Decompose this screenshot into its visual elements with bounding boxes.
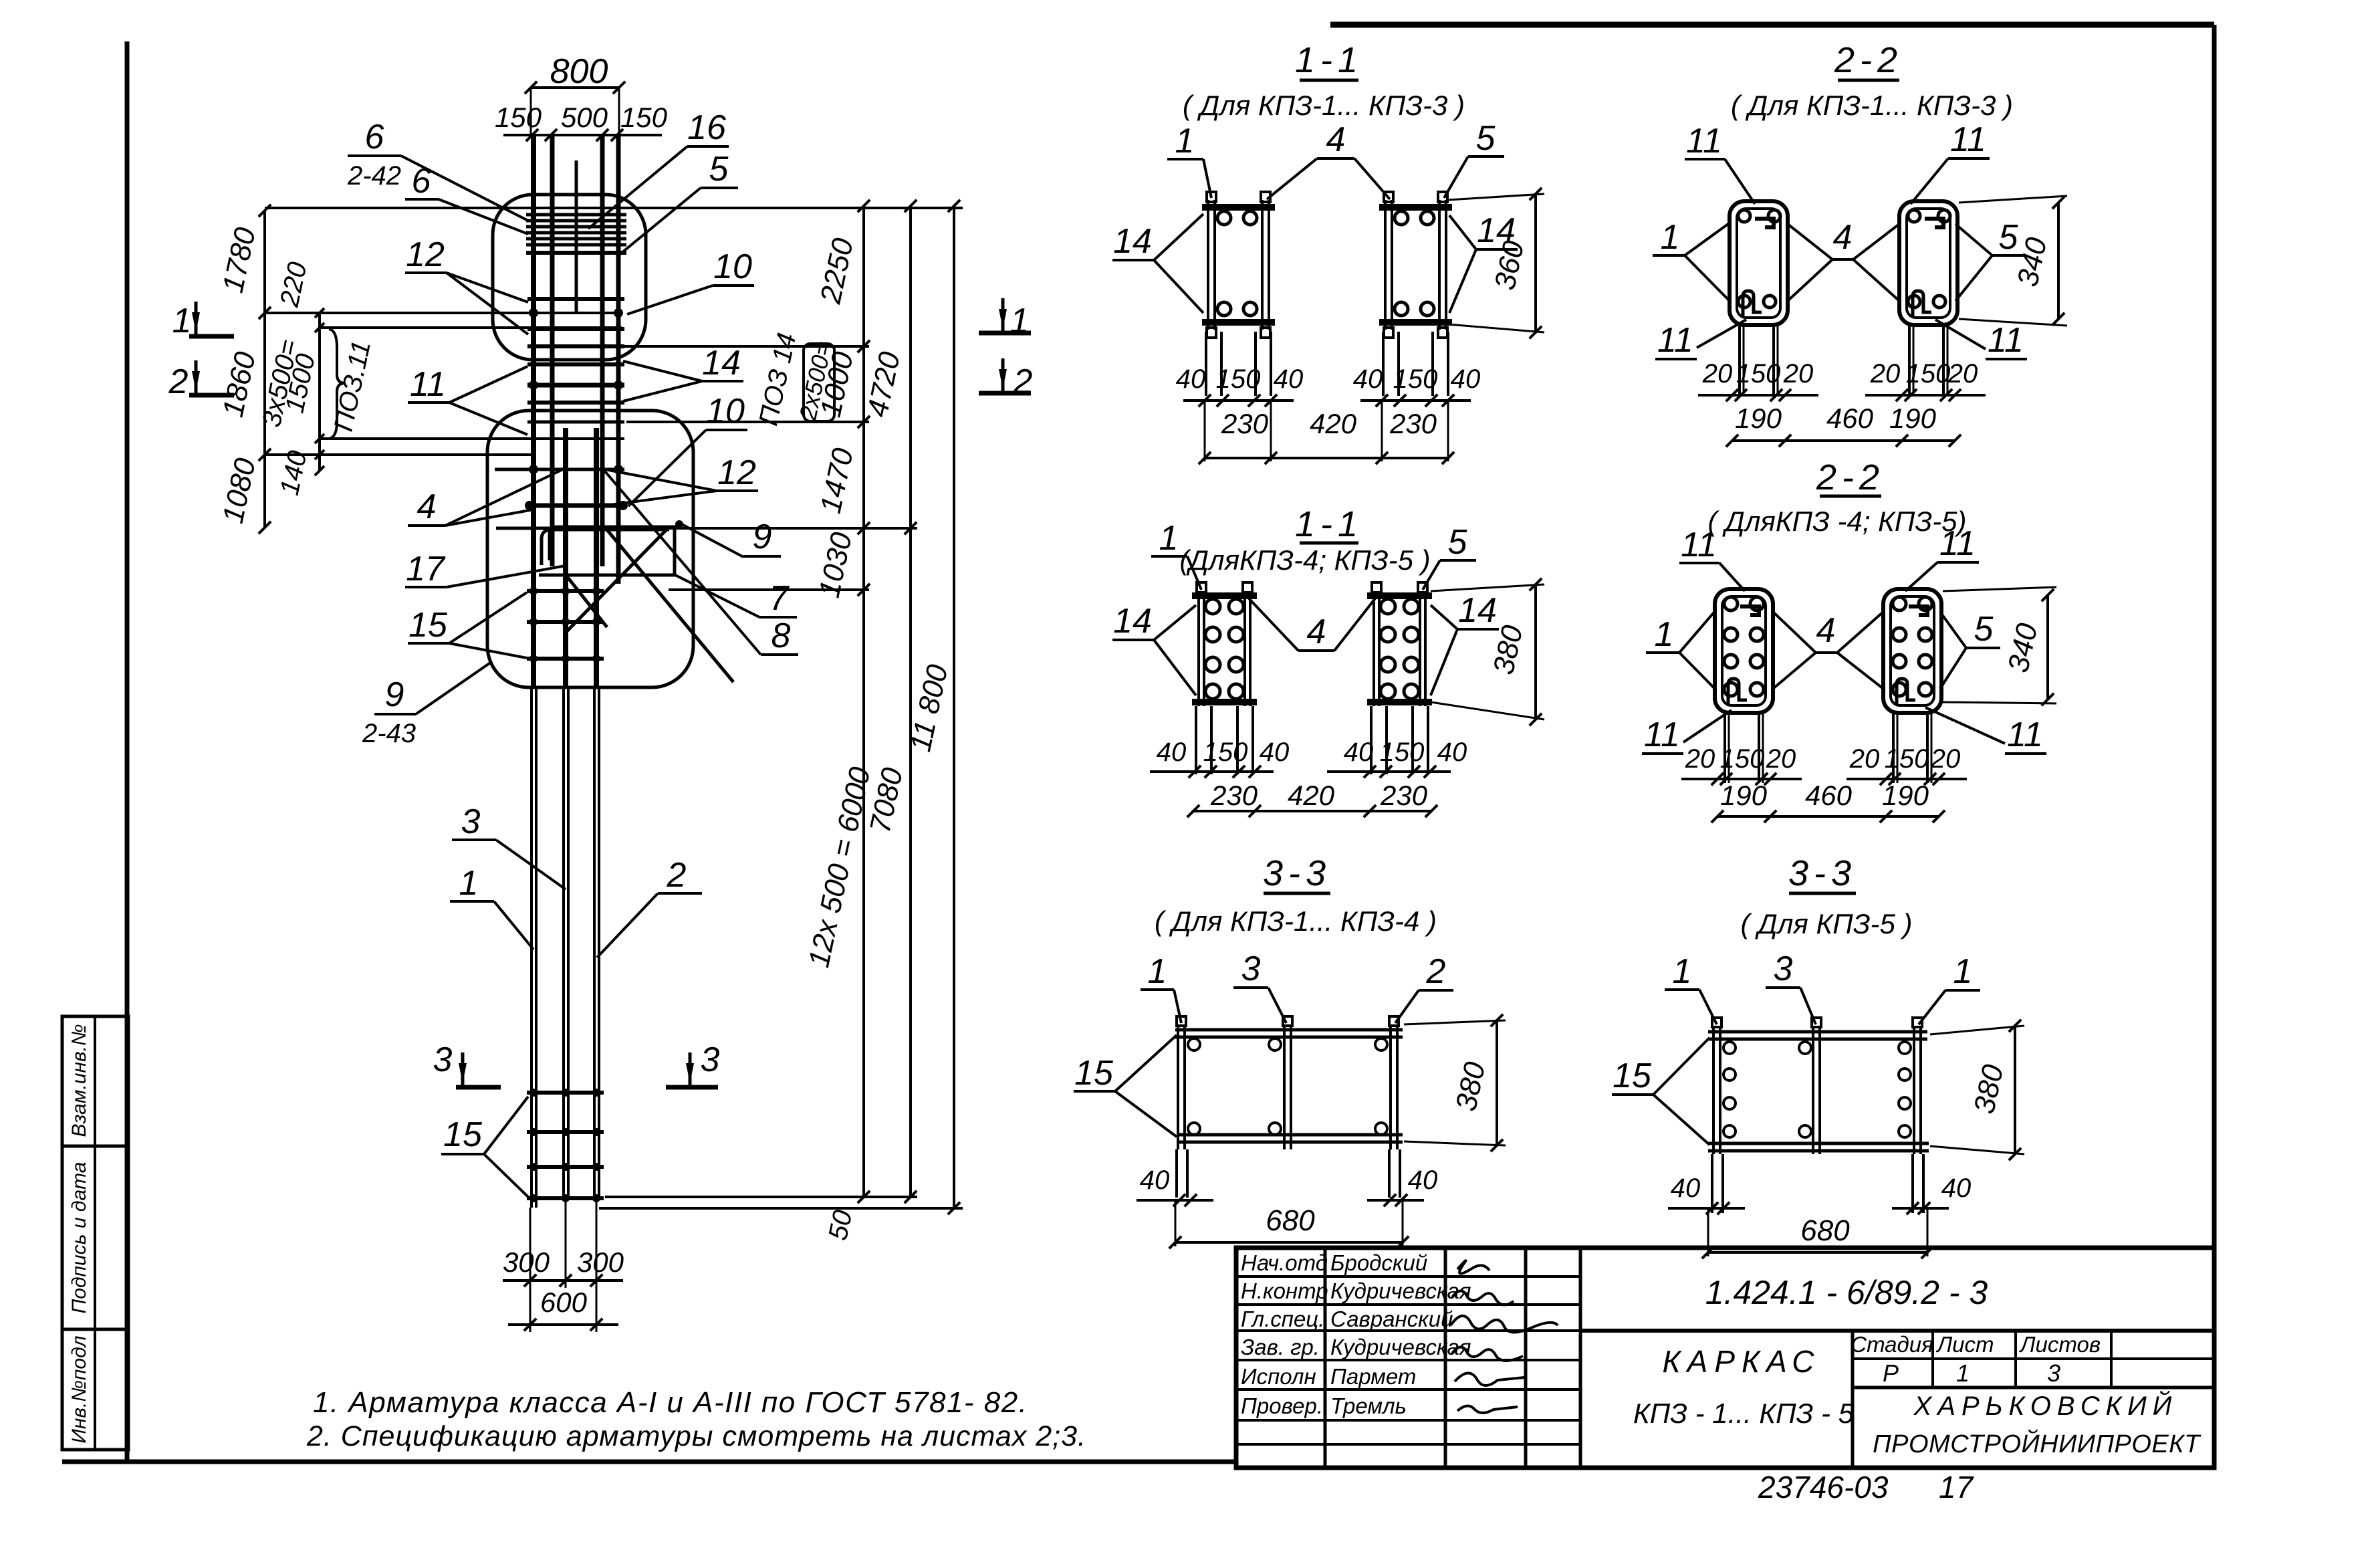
стадия columns bbox=[1853, 1357, 2214, 1360]
svg-text:11: 11 bbox=[1950, 120, 1986, 159]
main longitudinal bar 2 (right) bbox=[616, 136, 621, 584]
svg-text:1: 1 bbox=[1655, 615, 1674, 654]
right chain 2 vertical bbox=[909, 206, 912, 1197]
legs below bbox=[1205, 332, 1207, 396]
svg-text:3: 3 bbox=[1241, 950, 1261, 988]
svg-text:150: 150 bbox=[1393, 364, 1438, 394]
svg-text:40: 40 bbox=[1408, 1165, 1438, 1195]
svg-text:1. Арматура класса А-I и А: 1. Арматура класса А-I и А-III по ГОСТ 5… bbox=[313, 1386, 1028, 1419]
svg-text:5: 5 bbox=[709, 150, 729, 189]
level line 790 bbox=[496, 527, 917, 530]
dim 230 420 230 row2 bbox=[1193, 810, 1431, 812]
svg-text:2: 2 bbox=[1426, 952, 1446, 991]
svg-text:40: 40 bbox=[1140, 1165, 1170, 1195]
svg-text:4: 4 bbox=[1326, 120, 1346, 159]
svg-text:11: 11 bbox=[1686, 122, 1722, 160]
circles 2x4 bbox=[1205, 599, 1220, 614]
dim 230 420 230 row1 bbox=[1205, 457, 1448, 459]
svg-text:Исполн: Исполн bbox=[1241, 1364, 1316, 1389]
3-3 left: bottom chord bbox=[1178, 1133, 1403, 1137]
svg-text:20: 20 bbox=[1870, 359, 1901, 388]
svg-text:2250: 2250 bbox=[814, 235, 860, 307]
3-3 right legs bbox=[1711, 1154, 1713, 1213]
3-3 left circles bbox=[1188, 1038, 1200, 1050]
stirrup outline double bbox=[1883, 589, 1941, 713]
stirrup circles corners bbox=[1908, 210, 1920, 222]
anchor diagonal small bbox=[567, 576, 607, 627]
svg-text:20: 20 bbox=[1930, 744, 1961, 774]
lower-zone bar 2 (right) bbox=[594, 428, 599, 689]
svg-text:150: 150 bbox=[1885, 744, 1929, 774]
svg-text:Кудричевская: Кудричевская bbox=[1330, 1278, 1471, 1303]
tie row 702 with dots bbox=[495, 468, 624, 471]
svg-text:300: 300 bbox=[503, 1246, 550, 1278]
main longitudinal bar 1 (left) bbox=[531, 136, 536, 689]
svg-text:2-2: 2-2 bbox=[1834, 40, 1903, 80]
svg-text:11: 11 bbox=[1988, 321, 2024, 360]
svg-text:11: 11 bbox=[410, 365, 446, 404]
svg-text:1860: 1860 bbox=[217, 349, 262, 420]
lower consolidation blob outline bbox=[487, 411, 693, 687]
svg-text:Бродский: Бродский bbox=[1330, 1250, 1427, 1275]
svg-text:1-1: 1-1 bbox=[1295, 40, 1363, 80]
svg-text:800: 800 bbox=[550, 52, 608, 91]
svg-text:230: 230 bbox=[1389, 408, 1437, 439]
tie row 656 bracket end bbox=[321, 437, 624, 440]
svg-text:6: 6 bbox=[365, 118, 384, 156]
svg-text:1: 1 bbox=[1148, 952, 1167, 991]
bent bar поз.9 rectangle bbox=[539, 527, 675, 575]
top dimension 800: dim line bbox=[531, 86, 619, 89]
extension verticals row1 dims bbox=[1204, 401, 1206, 461]
bottom dim 600 bbox=[508, 1323, 618, 1326]
hook bottom bbox=[1913, 291, 1931, 316]
svg-text:Зав. гр.: Зав. гр. bbox=[1241, 1335, 1320, 1359]
3-3 right circles bbox=[1723, 1042, 1736, 1054]
svg-text:230: 230 bbox=[1380, 780, 1428, 811]
svg-text:50: 50 bbox=[823, 1208, 858, 1243]
dims 40 150 40 row2 left bbox=[1150, 770, 1274, 773]
svg-text:(ДляКПЗ-4; КПЗ-5 ): (ДляКПЗ-4; КПЗ-5 ) bbox=[1179, 544, 1430, 576]
svg-text:Провер.: Провер. bbox=[1241, 1394, 1323, 1418]
svg-text:1: 1 bbox=[1956, 1359, 1970, 1387]
main longitudinal bar (3rd) bbox=[600, 136, 605, 566]
bold tie поз.12 upper bbox=[527, 383, 624, 388]
svg-text:2-43: 2-43 bbox=[362, 719, 416, 748]
svg-text:3: 3 bbox=[461, 802, 481, 841]
svg-text:1.424.1 - 6/89.2 - 3: 1.424.1 - 6/89.2 - 3 bbox=[1705, 1274, 1988, 1311]
svg-text:3-3: 3-3 bbox=[1263, 853, 1331, 893]
svg-text:1470: 1470 bbox=[814, 445, 860, 516]
bar circles bbox=[1217, 211, 1231, 225]
svg-text:9: 9 bbox=[385, 675, 404, 714]
bottom dim 300 300 bbox=[503, 1279, 623, 1282]
3-3 right top chord bbox=[1708, 1030, 1927, 1034]
rail end stubs bbox=[1384, 192, 1393, 202]
svg-text:150: 150 bbox=[1203, 738, 1248, 767]
svg-text:150: 150 bbox=[1720, 744, 1765, 774]
svg-text:16: 16 bbox=[687, 108, 726, 147]
svg-text:1: 1 bbox=[1175, 122, 1195, 160]
right chain 3 vertical bbox=[953, 206, 955, 1208]
svg-text:5: 5 bbox=[1974, 610, 1994, 649]
main longitudinal bar (2nd) bbox=[550, 136, 555, 566]
dim 380 row2 bbox=[1534, 584, 1537, 719]
svg-text:20: 20 bbox=[1783, 359, 1814, 388]
svg-text:1: 1 bbox=[1673, 952, 1692, 991]
svg-text:300: 300 bbox=[577, 1246, 624, 1278]
svg-text:190: 190 bbox=[1720, 780, 1768, 811]
svg-text:40: 40 bbox=[1671, 1174, 1701, 1203]
svg-text:3-3: 3-3 bbox=[1788, 853, 1857, 893]
svg-text:460: 460 bbox=[1826, 403, 1874, 434]
svg-text:14: 14 bbox=[1113, 602, 1152, 641]
3-3 right dim 380 bbox=[2014, 1026, 2016, 1154]
lower blob ties поз.15 with dots bbox=[527, 589, 604, 593]
svg-text:40: 40 bbox=[1176, 364, 1206, 394]
bottom tie group with dots bbox=[527, 1091, 604, 1095]
svg-text:3: 3 bbox=[433, 1040, 453, 1079]
hook bottom bbox=[1897, 679, 1915, 704]
svg-text:420: 420 bbox=[1288, 780, 1335, 811]
svg-text:190: 190 bbox=[1882, 780, 1929, 811]
svg-text:380: 380 bbox=[1968, 1061, 2010, 1117]
svg-text:20: 20 bbox=[1849, 744, 1880, 774]
svg-text:40: 40 bbox=[1353, 364, 1383, 394]
3-3 right bottom chord bbox=[1708, 1142, 1929, 1145]
3-3 left dims 40 bbox=[1137, 1199, 1213, 1202]
top plate bbox=[1379, 204, 1452, 211]
legs below bbox=[1382, 332, 1385, 396]
svg-text:15: 15 bbox=[1074, 1054, 1114, 1093]
legs bbox=[1908, 325, 1911, 395]
svg-text:14: 14 bbox=[1113, 222, 1152, 261]
extension verticals of 800 box bbox=[530, 88, 532, 136]
svg-text:150: 150 bbox=[1216, 364, 1261, 394]
plates bbox=[1192, 592, 1257, 599]
dims 20 150 20 row2 right bbox=[1847, 778, 1967, 780]
hook top bbox=[1755, 219, 1774, 227]
stirrup circles 2x4 bbox=[1724, 597, 1738, 610]
3-3 right dims 40 bbox=[1668, 1207, 1745, 1210]
svg-text:12: 12 bbox=[717, 453, 756, 492]
brace поз.11 bbox=[329, 329, 345, 439]
svg-text:4: 4 bbox=[1307, 612, 1326, 651]
rails bbox=[1373, 591, 1375, 706]
stirrup circles corners bbox=[1738, 210, 1750, 222]
svg-text:11: 11 bbox=[1644, 715, 1680, 754]
circles 2x4 bbox=[1381, 599, 1395, 614]
svg-text:1: 1 bbox=[1661, 218, 1680, 257]
3-3 left rails bbox=[1177, 1024, 1179, 1149]
svg-text:220: 220 bbox=[275, 259, 313, 310]
svg-text:7: 7 bbox=[769, 579, 790, 618]
top plate bbox=[1202, 204, 1275, 211]
section rails bbox=[1384, 200, 1387, 330]
svg-text:10: 10 bbox=[713, 247, 752, 286]
stubs bbox=[1372, 582, 1381, 592]
dim 190 460 190 row2 bbox=[1717, 815, 1939, 818]
boxed 2x500= bbox=[804, 344, 834, 421]
svg-text:380: 380 bbox=[1449, 1058, 1492, 1114]
hook top bbox=[1740, 606, 1759, 615]
svg-text:3: 3 bbox=[701, 1040, 720, 1079]
plates bbox=[1367, 592, 1432, 599]
svg-text:ХАРЬКОВСКИЙ: ХАРЬКОВСКИЙ bbox=[1913, 1390, 2178, 1421]
legs bbox=[1892, 713, 1895, 783]
dims 20 150 20 row2 left bbox=[1681, 778, 1802, 780]
каркас cell divider bbox=[1851, 1331, 1855, 1468]
svg-text:( Для КПЗ-1... КПЗ-3 ): ( Для КПЗ-1... КПЗ-3 ) bbox=[1731, 90, 2013, 121]
bottom plate bbox=[1202, 319, 1275, 326]
svg-text:( Для КПЗ-1... КПЗ-3 ): ( Для КПЗ-1... КПЗ-3 ) bbox=[1183, 90, 1465, 121]
middle short bar 16 bbox=[575, 160, 578, 312]
sheet frame top border bbox=[1330, 22, 2214, 28]
svg-text:( Для КПЗ-5 ): ( Для КПЗ-5 ) bbox=[1741, 908, 1913, 939]
mesh поз.6 closely spaced lines bbox=[526, 213, 626, 217]
dims 20 150 20 row1 right bbox=[1865, 394, 1986, 397]
dim 340 row1 bbox=[2057, 203, 2060, 319]
svg-text:5: 5 bbox=[1476, 119, 1496, 158]
tie row 631 bbox=[527, 421, 624, 424]
svg-text:8: 8 bbox=[771, 617, 791, 655]
left dim chain vertical bbox=[263, 211, 266, 528]
secondary chain 220/3x500/140 bbox=[318, 313, 321, 471]
svg-text:2. Спецификацию арматуры смо: 2. Спецификацию арматуры смотреть на лис… bbox=[306, 1420, 1086, 1452]
dims 40 150 40 row1 left bbox=[1183, 399, 1294, 402]
leader arrow to 9 top bbox=[678, 522, 743, 557]
hook bottom bbox=[1728, 679, 1747, 704]
svg-text:680: 680 bbox=[1800, 1214, 1850, 1247]
legs bbox=[1195, 706, 1197, 774]
svg-text:230: 230 bbox=[1210, 780, 1258, 811]
section rails bbox=[1207, 200, 1209, 330]
svg-text:230: 230 bbox=[1221, 408, 1269, 439]
svg-text:20: 20 bbox=[1766, 744, 1796, 774]
rails bbox=[1197, 591, 1200, 706]
svg-text:11: 11 bbox=[2007, 715, 2043, 754]
svg-text:Тремль: Тремль bbox=[1330, 1394, 1407, 1418]
stirrup outline double bbox=[1730, 201, 1788, 325]
svg-text:14: 14 bbox=[702, 344, 741, 382]
svg-text:Н.контр: Н.контр bbox=[1241, 1278, 1328, 1303]
svg-text:40: 40 bbox=[1274, 364, 1304, 394]
3-3 right rails bbox=[1712, 1026, 1715, 1154]
svg-text:Савранский: Савранский bbox=[1330, 1307, 1453, 1331]
dims 20 150 20 row1 left bbox=[1698, 394, 1818, 397]
legs bbox=[1723, 713, 1726, 783]
svg-text:3: 3 bbox=[2047, 1359, 2060, 1387]
svg-text:20: 20 bbox=[1685, 744, 1715, 774]
svg-text:4: 4 bbox=[417, 487, 437, 526]
bar circles bbox=[1395, 211, 1408, 225]
legs bbox=[1738, 325, 1741, 395]
svg-text:Пармет: Пармет bbox=[1330, 1364, 1416, 1389]
svg-text:Листов: Листов bbox=[2019, 1332, 2101, 1357]
svg-text:150: 150 bbox=[495, 102, 542, 133]
sidebar stamp boxes bbox=[62, 1016, 128, 1450]
long bold tie 756 поз.10 bbox=[525, 504, 627, 508]
level line 882 bbox=[669, 588, 869, 591]
svg-text:4: 4 bbox=[1816, 611, 1836, 650]
level line 1807 bbox=[599, 1207, 963, 1210]
svg-text:1780: 1780 bbox=[217, 225, 262, 296]
lower-zone bar 3 (middle) bbox=[563, 428, 568, 689]
svg-text:Подпись и дата: Подпись и дата bbox=[68, 1162, 90, 1314]
right chain 1 vertical bbox=[862, 206, 865, 1197]
bottom plate bbox=[1379, 319, 1452, 326]
anchor diagonal 8 bbox=[567, 528, 668, 631]
svg-text:Стадия: Стадия bbox=[1851, 1332, 1933, 1357]
upper ties with end dots bbox=[527, 297, 624, 301]
3-3 left dim 680 bbox=[1175, 1241, 1403, 1244]
stirrup circles 2x4 bbox=[1893, 597, 1906, 610]
svg-text:10: 10 bbox=[706, 392, 745, 431]
dims 40 150 40 row1 right bbox=[1360, 399, 1471, 402]
svg-text:14: 14 bbox=[1458, 591, 1497, 630]
svg-text:15: 15 bbox=[1613, 1056, 1652, 1095]
anchor diagonal 7 bbox=[606, 528, 733, 682]
title block row lines left part bbox=[1236, 1275, 1580, 1278]
svg-text:680: 680 bbox=[1266, 1204, 1315, 1237]
svg-text:2: 2 bbox=[667, 856, 687, 895]
svg-text:40: 40 bbox=[1344, 738, 1374, 767]
3-3 right dim 680 bbox=[1708, 1251, 1927, 1254]
svg-text:1: 1 bbox=[459, 864, 479, 903]
svg-text:11: 11 bbox=[1939, 524, 1976, 563]
svg-text:4: 4 bbox=[1833, 218, 1853, 257]
upper consolidation blob outline bbox=[493, 195, 646, 360]
svg-text:4720: 4720 bbox=[861, 349, 907, 420]
svg-text:40: 40 bbox=[1437, 738, 1467, 767]
rail end stubs bbox=[1207, 192, 1216, 202]
svg-text:КПЗ - 1... КПЗ - 5: КПЗ - 1... КПЗ - 5 bbox=[1633, 1398, 1855, 1429]
3-3 left dim 380 bbox=[1496, 1020, 1498, 1145]
svg-text:2-42: 2-42 bbox=[347, 161, 401, 191]
svg-text:500: 500 bbox=[561, 102, 608, 133]
svg-text:( ДляКПЗ -4; КПЗ-5): ( ДляКПЗ -4; КПЗ-5) bbox=[1708, 506, 1967, 537]
svg-text:11: 11 bbox=[1657, 321, 1693, 360]
svg-text:190: 190 bbox=[1889, 403, 1937, 434]
sheet frame right border bbox=[2212, 25, 2217, 1250]
svg-text:Инв.№подл: Инв.№подл bbox=[68, 1335, 90, 1443]
svg-text:9: 9 bbox=[753, 518, 772, 556]
svg-text:190: 190 bbox=[1735, 403, 1782, 434]
svg-text:КАРКАС: КАРКАС bbox=[1663, 1344, 1821, 1379]
big designation cell divider bbox=[1580, 1329, 2214, 1333]
sheet frame left border bbox=[125, 41, 130, 1462]
svg-text:1: 1 bbox=[172, 302, 192, 340]
level line 490 bracket top bbox=[321, 326, 622, 329]
svg-text:340: 340 bbox=[2002, 620, 2044, 675]
svg-text:1: 1 bbox=[1953, 952, 1973, 991]
level extension top bbox=[265, 207, 963, 209]
svg-text:Нач.отд: Нач.отд bbox=[1241, 1250, 1328, 1275]
svg-text:150: 150 bbox=[1906, 359, 1951, 388]
svg-text:3: 3 bbox=[1774, 950, 1793, 988]
3-3 left legs bbox=[1175, 1149, 1178, 1198]
3-3 left: top chord bbox=[1175, 1028, 1403, 1032]
svg-text:Р: Р bbox=[1883, 1359, 1899, 1387]
hook top bbox=[1909, 606, 1927, 615]
stubs bbox=[1197, 582, 1206, 592]
svg-text:5: 5 bbox=[1448, 523, 1468, 562]
svg-text:Лист: Лист bbox=[1936, 1332, 1994, 1357]
svg-text:12: 12 bbox=[406, 235, 445, 274]
level line 1790 bbox=[605, 1196, 917, 1198]
stirrup outline double bbox=[1715, 589, 1773, 713]
hook bottom bbox=[1743, 291, 1762, 316]
svg-text:460: 460 bbox=[1805, 780, 1853, 811]
level line 468 with dots bbox=[265, 312, 622, 314]
svg-text:5: 5 bbox=[1999, 218, 2019, 257]
svg-text:420: 420 bbox=[1310, 408, 1357, 439]
svg-text:23746-03: 23746-03 bbox=[1758, 1470, 1889, 1505]
svg-text:40: 40 bbox=[1451, 364, 1481, 394]
svg-text:40: 40 bbox=[1941, 1174, 1972, 1203]
svg-text:17: 17 bbox=[1939, 1470, 1974, 1505]
svg-text:40: 40 bbox=[1260, 738, 1290, 767]
svg-text:1080: 1080 bbox=[217, 455, 262, 526]
tie row 795 bbox=[496, 527, 605, 530]
dims 40 150 40 row2 right bbox=[1327, 770, 1451, 773]
svg-text:15: 15 bbox=[408, 606, 448, 645]
svg-text:15: 15 bbox=[443, 1115, 483, 1154]
dim 360 row1 bbox=[1534, 194, 1537, 332]
svg-text:6: 6 bbox=[412, 162, 431, 201]
svg-text:600: 600 bbox=[540, 1287, 588, 1318]
svg-text:150: 150 bbox=[1380, 738, 1425, 767]
bold tie under mesh bbox=[526, 251, 626, 255]
dim 340 row2 bbox=[2046, 595, 2049, 699]
svg-text:1-1: 1-1 bbox=[1295, 504, 1363, 544]
svg-text:( Для КПЗ-1... КПЗ-4 ): ( Для КПЗ-1... КПЗ-4 ) bbox=[1155, 905, 1437, 937]
bottom bars extensions bbox=[529, 1208, 531, 1332]
hook top bbox=[1925, 219, 1943, 227]
level line 680 bbox=[265, 453, 535, 456]
svg-text:2-2: 2-2 bbox=[1816, 457, 1885, 497]
svg-text:12х 500 = 6000: 12х 500 = 6000 bbox=[802, 764, 876, 970]
legs bbox=[1370, 706, 1373, 774]
signatures squiggles bbox=[1457, 1260, 1490, 1273]
svg-text:40: 40 bbox=[1157, 738, 1187, 767]
svg-text:17: 17 bbox=[406, 550, 446, 588]
svg-text:150: 150 bbox=[620, 102, 668, 133]
svg-text:ПРОМСТРОЙНИИПРОЕКТ: ПРОМСТРОЙНИИПРОЕКТ bbox=[1873, 1429, 2201, 1458]
dim 190 460 190 row1 bbox=[1732, 439, 1955, 442]
svg-text:Взам.инв.№: Взам.инв.№ bbox=[68, 1024, 90, 1137]
sheet frame bottom border bbox=[62, 1460, 1236, 1464]
stirrup outline double bbox=[1899, 201, 1957, 325]
svg-text:20: 20 bbox=[1702, 359, 1733, 388]
level line 631 bbox=[626, 421, 869, 423]
svg-text:1: 1 bbox=[1159, 519, 1179, 558]
svg-text:Гл.спец.: Гл.спец. bbox=[1241, 1307, 1324, 1331]
level line 518 bbox=[622, 345, 869, 348]
title block outer box bbox=[1236, 1248, 2214, 1468]
svg-text:Кудричевская: Кудричевская bbox=[1330, 1335, 1471, 1359]
svg-text:2: 2 bbox=[168, 362, 189, 401]
svg-text:150: 150 bbox=[1736, 359, 1781, 388]
title block vertical dividers left part bbox=[1324, 1248, 1327, 1468]
svg-text:11: 11 bbox=[1681, 526, 1717, 564]
svg-text:20: 20 bbox=[1947, 359, 1978, 388]
top dimension 150 500 150: dim line bbox=[503, 134, 662, 136]
